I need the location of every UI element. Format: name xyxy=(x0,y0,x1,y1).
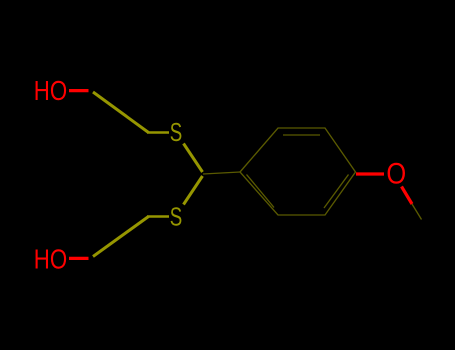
bond O-CH3 (carbon half) xyxy=(412,204,422,220)
bond C2-S1 xyxy=(147,131,169,134)
hydroxyl HO (top) xyxy=(34,76,67,107)
bond S1-CH xyxy=(184,144,203,173)
hydroxyl HO (bottom) xyxy=(34,244,67,275)
sulfur S2 xyxy=(170,201,182,231)
svg-text:HO: HO xyxy=(34,76,67,107)
double bond inner line (lower-left edge) xyxy=(247,175,275,208)
double bond inner line (lower-right edge) xyxy=(324,175,349,209)
double bond inner line (top edge) xyxy=(283,134,320,136)
svg-text:S: S xyxy=(170,117,182,147)
bond C1-C2 (bottom chain) xyxy=(93,217,149,257)
bond ring-O (ether, red) xyxy=(356,172,384,175)
bond C2-S2 xyxy=(147,215,169,218)
benzene ring C1-C6 xyxy=(240,128,356,215)
bond O-C (bottom, red) xyxy=(69,257,89,260)
bond C1-C2 (top chain) xyxy=(93,92,149,133)
bond O-CH3 (red half) xyxy=(402,187,413,205)
sulfur S1 xyxy=(170,117,182,147)
bond CH-ring (methine carbon to ipso carbon) xyxy=(203,172,240,174)
svg-text:O: O xyxy=(386,157,406,190)
svg-text:S: S xyxy=(170,201,182,231)
svg-text:HO: HO xyxy=(34,244,67,275)
bond O-C (top, red) xyxy=(69,89,89,92)
ether oxygen O xyxy=(386,157,406,190)
bond S2-CH xyxy=(184,176,203,205)
